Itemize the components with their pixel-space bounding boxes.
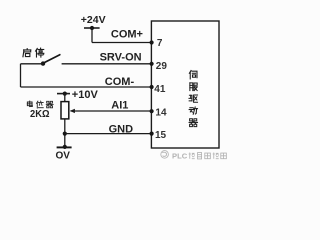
node pin14 xyxy=(150,109,154,113)
svg-text:GND: GND xyxy=(109,123,134,135)
node GND junction dot xyxy=(63,132,67,136)
svg-text:14: 14 xyxy=(155,108,167,119)
wire COM- xyxy=(21,86,152,88)
wire pot bottom xyxy=(64,119,66,147)
node pin41 xyxy=(150,85,154,89)
wire switch to left rail xyxy=(21,63,44,65)
ground 0V bar xyxy=(57,146,72,148)
svg-text:SRV-ON: SRV-ON xyxy=(100,51,142,63)
potentiometer RP1 body xyxy=(61,102,69,119)
label 启停 switch name xyxy=(23,49,31,57)
label 伺 (vertical text in box) xyxy=(189,70,197,78)
svg-text:2KΩ: 2KΩ xyxy=(30,109,50,120)
switch S1 lever xyxy=(43,55,60,64)
svg-text:29: 29 xyxy=(156,61,168,72)
svg-text:+10V: +10V xyxy=(72,89,99,101)
wire SRV-ON xyxy=(62,63,152,65)
+10V supply bar xyxy=(57,93,70,95)
wire COM+ xyxy=(92,42,151,44)
svg-text:COM-: COM- xyxy=(105,76,135,88)
svg-text:COM+: COM+ xyxy=(111,29,143,41)
node +10V dot xyxy=(63,92,67,96)
svg-text:15: 15 xyxy=(155,130,167,141)
watermark logo xyxy=(161,151,169,159)
label 服 xyxy=(190,83,197,91)
wire left rail vertical xyxy=(20,64,22,87)
node pin15 xyxy=(150,132,154,136)
wire GND xyxy=(65,133,152,135)
svg-text:41: 41 xyxy=(154,84,166,95)
svg-text:+24V: +24V xyxy=(81,14,106,26)
label 驱 xyxy=(189,95,198,102)
svg-text:AI1: AI1 xyxy=(111,99,128,111)
node 0V dot xyxy=(63,145,67,149)
wire +24V down xyxy=(91,28,93,43)
node pin7 xyxy=(150,40,154,44)
switch pivot dot xyxy=(41,61,45,65)
servo drive box U1 xyxy=(151,21,219,148)
wire AI1 xyxy=(71,110,152,112)
label 动 xyxy=(189,107,197,114)
label 器 xyxy=(189,119,197,127)
node +24V dot xyxy=(90,26,94,30)
svg-text:7: 7 xyxy=(157,38,163,49)
node pin29 xyxy=(150,62,154,66)
+24V supply bar xyxy=(84,27,100,29)
svg-text:PLC: PLC xyxy=(172,151,188,160)
svg-text:OV: OV xyxy=(56,151,71,162)
wire pot top xyxy=(64,94,66,102)
wiper arrow head xyxy=(70,109,75,113)
label 电位器 xyxy=(27,101,32,107)
